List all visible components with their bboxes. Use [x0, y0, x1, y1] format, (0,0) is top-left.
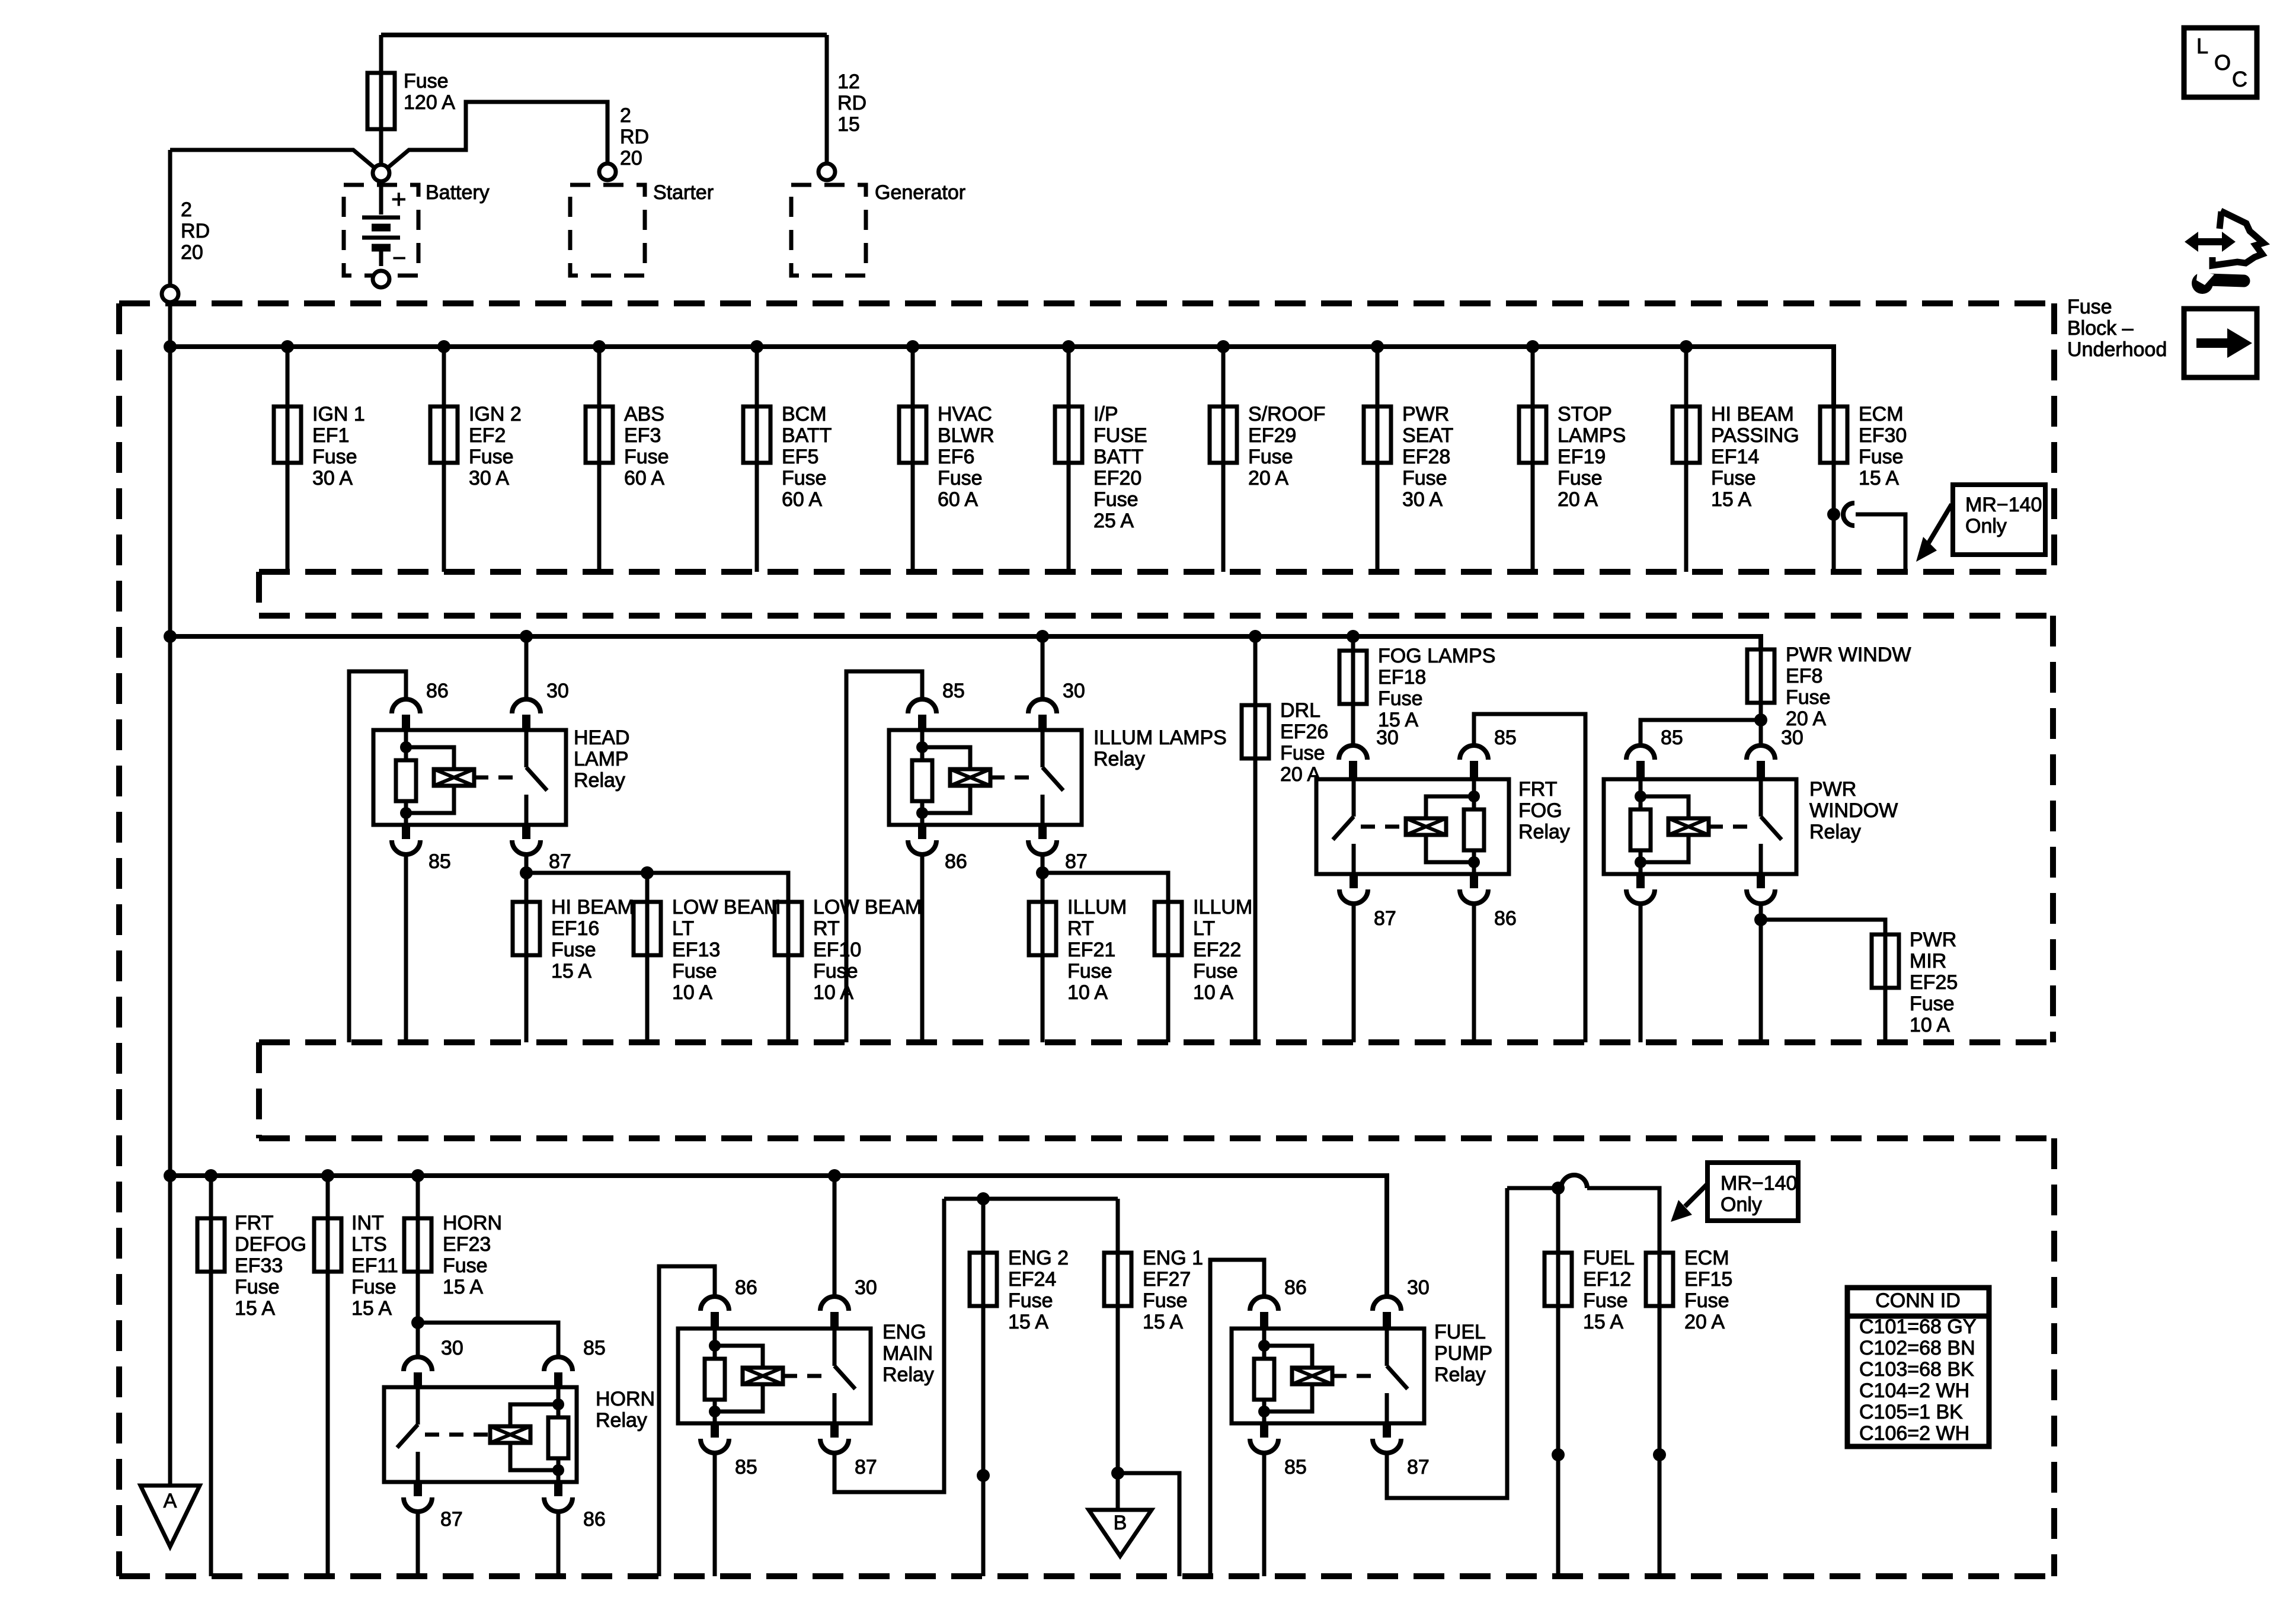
- fuse EF12 (FUEL): [1544, 1253, 1572, 1306]
- pin 85 PWR WINDOW relay: [1626, 726, 1683, 779]
- junction bus1 / EF6: [906, 340, 919, 353]
- svg-text:30: 30: [1407, 1276, 1430, 1299]
- svg-text:C101=68 GYC102=68 BNC103=68 BK: C101=68 GYC102=68 BNC103=68 BKC104=2 WHC…: [1859, 1315, 1977, 1445]
- fuse EF8 (PWR WINDW): [1747, 649, 1774, 703]
- junction EF30 output / MR-140 branch: [1827, 508, 1840, 521]
- pin 85 ILLUM relay: [908, 680, 965, 730]
- wire: EF20 feed: [1067, 347, 1071, 406]
- svg-text:FUELPUMPRelay: FUELPUMPRelay: [1434, 1321, 1492, 1386]
- svg-text:O: O: [2214, 50, 2231, 75]
- fuse block dashed bottom edge: [119, 1573, 2054, 1579]
- connector triangle B: [1089, 1510, 1152, 1556]
- svg-text:87: 87: [855, 1456, 877, 1478]
- svg-text:87: 87: [549, 850, 571, 873]
- svg-text:HORNRelay: HORNRelay: [596, 1388, 655, 1432]
- fuse block dashed right edge row3: [2051, 1138, 2057, 1576]
- junction on bus1 at left feed: [164, 340, 177, 353]
- fuse F120 (120 A): [367, 73, 395, 165]
- wire: EF5 output: [755, 463, 759, 572]
- svg-text:30: 30: [855, 1276, 877, 1299]
- pin 30 PWR WINDOW relay: [1747, 726, 1803, 779]
- wire: EF27 branch to triangle B: [1116, 1473, 1120, 1510]
- junction bus2 / HEAD 30: [520, 630, 533, 643]
- junction HEAD 87 distribution: [520, 866, 533, 879]
- svg-text:Starter: Starter: [653, 181, 714, 204]
- pin 30 ILLUM relay: [1028, 680, 1085, 730]
- wire: split to HORN 85: [418, 1323, 558, 1357]
- fuse block dashed step left row2/row3: [256, 1042, 262, 1138]
- pin 87 HORN relay: [404, 1482, 463, 1531]
- fuse EF24 (ENG 2): [970, 1253, 997, 1306]
- wire: EF1 output: [286, 463, 290, 572]
- arrow to ECM feeder: [1671, 1184, 1707, 1222]
- wire: EF14 output: [1684, 463, 1689, 572]
- fuse block dashed row2 bottom edge: [259, 1039, 2053, 1045]
- pin 87 ILLUM relay: [1028, 825, 1088, 873]
- svg-text:A: A: [164, 1490, 177, 1512]
- wire: ILLUM 86 to block edge: [920, 854, 925, 1042]
- callout box MR-140 Only (row3): [1707, 1163, 1798, 1221]
- junction on EF24 output: [977, 1469, 990, 1482]
- wire: EF25 output: [1884, 988, 1888, 1042]
- pin 87 HEAD LAMP relay: [512, 825, 571, 873]
- wire: EF26 feed: [1253, 636, 1258, 705]
- svg-text:85: 85: [428, 850, 451, 873]
- junction bus2 / FOG LAMPS: [1347, 630, 1360, 643]
- wire: EF6 feed: [911, 347, 915, 406]
- pin 86 FUEL PUMP relay: [1250, 1276, 1307, 1329]
- svg-text:85: 85: [1284, 1456, 1307, 1478]
- fuse EF23 (HORN): [404, 1218, 431, 1272]
- svg-text:B: B: [1114, 1512, 1127, 1534]
- wire: EF21 feed: [1041, 873, 1045, 902]
- wire: EF24 feed: [981, 1199, 986, 1253]
- wire: EF27 branch to block edge: [1118, 1473, 1179, 1576]
- wire: ENG fuse feeder: [944, 1197, 1118, 1201]
- relay HEAD LAMP (box and contacts): [373, 730, 566, 825]
- bus: row 3 feed: [170, 1176, 1387, 1297]
- node: starter terminal: [599, 164, 616, 180]
- junction bus1 / EF14: [1680, 340, 1693, 353]
- wire: EF11 output: [326, 1272, 330, 1576]
- pin 86 PWR WINDOW relay: [1626, 874, 1655, 904]
- fuse EF20 (I/P): [1055, 406, 1082, 463]
- wire: EF29 feed: [1221, 347, 1226, 406]
- wire: ILLUM 87 output: [1041, 854, 1045, 873]
- wire: EF1 feed: [286, 347, 290, 406]
- junction ILLUM 87 distribution: [1036, 866, 1049, 879]
- junction EF8 output split: [1754, 713, 1767, 726]
- svg-text:86: 86: [426, 680, 449, 702]
- svg-text:87: 87: [1407, 1456, 1430, 1478]
- fuse EF11 (INT): [314, 1218, 341, 1272]
- relay FRT FOG (box and contacts): [1316, 779, 1509, 874]
- svg-text:Fuse120 A: Fuse120 A: [404, 70, 455, 114]
- wire: EF27 feed: [1116, 1199, 1120, 1253]
- node: battery positive junction: [373, 165, 389, 181]
- pin 85 FUEL PUMP relay: [1250, 1423, 1307, 1478]
- wire: EF3 output: [597, 463, 602, 572]
- wire: EF8 output: [1759, 703, 1763, 744]
- pin 85 HEAD LAMP relay: [392, 825, 451, 873]
- fuse EF28 (PWR): [1364, 406, 1391, 463]
- callout box MR-140 Only (row1): [1953, 485, 2045, 555]
- bus: row 2 feed: [170, 636, 1761, 649]
- wire: EF29 output: [1221, 463, 1226, 572]
- svg-text:85: 85: [1661, 726, 1683, 749]
- wire: EF2 feed: [442, 347, 446, 406]
- wire: EF22 output: [1166, 955, 1171, 1042]
- wire: FUEL PUMP 86 feed: [1210, 1260, 1264, 1576]
- wire: EF15 output: [1658, 1306, 1662, 1576]
- junction feeder / EF12: [1552, 1182, 1565, 1195]
- fuse block dashed step left row1/row2: [256, 572, 262, 616]
- wire: left feed to grounding triangle A: [168, 1176, 172, 1486]
- fuse EF14 (HI BEAM): [1673, 406, 1700, 463]
- icon vehicle pictogram with double arrow and wrench: [2185, 211, 2263, 294]
- wire: EF33 output: [209, 1272, 213, 1576]
- svg-text:Battery: Battery: [426, 181, 490, 204]
- connector triangle A: [140, 1486, 200, 1547]
- fuse block dashed outline left edge: [116, 303, 122, 1576]
- fuse EF26 (DRL): [1242, 705, 1269, 758]
- junction bus2 / left feed: [164, 630, 177, 643]
- junction bus1 / EF3: [593, 340, 606, 353]
- node: battery negative terminal: [373, 271, 389, 287]
- svg-text:HEADLAMPRelay: HEADLAMPRelay: [574, 726, 629, 792]
- wire: EF28 feed: [1376, 347, 1380, 406]
- fuse block dashed row1 bottom edge: [259, 569, 2054, 575]
- wire: fuse 120A top lead: [379, 35, 383, 73]
- wire: EF13 output: [645, 955, 650, 1042]
- fuse block dashed right edge row2: [2050, 616, 2056, 1042]
- svg-text:30: 30: [1781, 726, 1803, 749]
- pin 85 FRT FOG relay: [1460, 726, 1517, 779]
- wire: ILLUM relay 85 feed: [846, 671, 922, 1042]
- wire: EF30 output: [1832, 463, 1836, 572]
- junction bus2 / DRL: [1249, 630, 1262, 643]
- junction on EF12 output: [1552, 1448, 1565, 1461]
- wire: EF24 output: [981, 1306, 986, 1576]
- pin 86 HEAD LAMP relay: [392, 680, 449, 730]
- junction PWR MIR tap: [1754, 913, 1767, 926]
- junction bus2 / ILLUM 30: [1036, 630, 1049, 643]
- wire: EF12 feed: [1556, 1188, 1560, 1253]
- wire: EF6 output: [911, 463, 915, 572]
- pin 87 ENG MAIN relay: [820, 1423, 877, 1478]
- svg-text:CONN ID: CONN ID: [1875, 1289, 1961, 1312]
- pin 85 HORN relay: [544, 1337, 606, 1387]
- wire: HI BEAM fuse feed: [525, 873, 529, 902]
- fuse EF21 (ILLUM RT): [1029, 902, 1056, 955]
- wire: ENG MAIN 86 feed: [659, 1266, 715, 1576]
- svg-text:87: 87: [1065, 850, 1088, 873]
- fuse EF29 (S/ROOF): [1210, 406, 1237, 463]
- fuse EF13 (LOW BEAM LT): [634, 902, 661, 955]
- wire: EF19 output: [1531, 463, 1535, 572]
- svg-text:85: 85: [1494, 726, 1517, 749]
- icon LOC box: [2184, 28, 2257, 97]
- fuse EF5 (BCM): [743, 406, 770, 463]
- wire: FRT FOG 86 to block edge: [1472, 904, 1476, 1042]
- wire: left feed through fuse block: [168, 302, 172, 1486]
- node: generator terminal: [818, 164, 835, 180]
- pin 86 ENG MAIN relay: [701, 1276, 757, 1329]
- svg-text:86: 86: [1284, 1276, 1307, 1299]
- wire: EF11 feed: [326, 1176, 330, 1218]
- fuse EF19 (STOP): [1519, 406, 1546, 463]
- wire: split to PWR WINDOW 85: [1641, 720, 1761, 744]
- wire: EF5 feed: [755, 347, 759, 406]
- svg-text:Generator: Generator: [875, 181, 965, 204]
- junction EF27 output split: [1111, 1467, 1124, 1480]
- junction bus1 / EF20: [1062, 340, 1075, 353]
- pin 87 FUEL PUMP relay: [1373, 1423, 1430, 1478]
- junction bus1 / EF19: [1526, 340, 1539, 353]
- wire: MR-140 branch with option hop: [1843, 503, 1905, 572]
- node: bulkhead connector on left feed: [162, 286, 178, 302]
- wire: EF16 output: [525, 955, 529, 1042]
- fuse block dashed outline right edge row1: [2051, 303, 2057, 572]
- pin 30 HORN relay: [404, 1337, 463, 1387]
- wire: right branch to starter: [387, 102, 607, 168]
- junction on EF15 output: [1653, 1448, 1666, 1461]
- fuse EF30 (ECM): [1820, 406, 1847, 463]
- pin 86 HORN relay: [544, 1482, 606, 1531]
- wire: ENG MAIN 87 output riser: [834, 1199, 944, 1492]
- wire: HORN 86 to block edge: [557, 1512, 561, 1576]
- wire: HEAD 87 output: [525, 854, 529, 873]
- fuse EF22 (ILLUM LT): [1155, 902, 1182, 955]
- wire: EF3 feed: [597, 347, 602, 406]
- wire: HEAD 85 to block edge: [404, 854, 408, 1042]
- pin 30 FRT FOG relay: [1339, 726, 1399, 779]
- starter (dashed box): [570, 185, 645, 276]
- relay PWR WINDOW (box and contacts): [1604, 779, 1796, 874]
- junction bus3 / left feed: [164, 1169, 177, 1182]
- junction bus3 / EF33: [204, 1169, 218, 1182]
- svg-text:30: 30: [441, 1337, 463, 1359]
- wire: EF23 feed: [416, 1176, 420, 1218]
- wire: HEAD LAMP relay 86 feed: [349, 671, 406, 1042]
- svg-text:87: 87: [1374, 907, 1396, 930]
- wire: EF28 output: [1376, 463, 1380, 572]
- wire: HORN 87 to block edge: [416, 1512, 420, 1576]
- wire: top feed from Fuse 120A to Generator: [381, 33, 827, 37]
- wire: tap to PWR MIR fuse: [1761, 920, 1885, 934]
- relay HORN (box and contacts): [384, 1387, 577, 1482]
- wire: EF20 output: [1067, 463, 1071, 572]
- wire: EF18 output to relay 30: [1351, 704, 1355, 744]
- svg-text:85: 85: [583, 1337, 606, 1359]
- junction bus3 / ENG MAIN 30: [828, 1169, 841, 1182]
- fuse EF6 (HVAC): [899, 406, 926, 463]
- generator (dashed box): [791, 185, 866, 276]
- pin 86 ILLUM relay: [908, 825, 967, 873]
- svg-text:86: 86: [945, 850, 967, 873]
- wire: EF12 output: [1556, 1306, 1560, 1576]
- wire: EF18 feed: [1351, 636, 1355, 651]
- svg-text:87: 87: [440, 1508, 463, 1531]
- wire: FUEL PUMP 87 output riser: [1387, 1188, 1507, 1498]
- wire: HORN 30 drop: [416, 1323, 420, 1357]
- wire: FRT FOG 87 to block edge: [1352, 904, 1356, 1042]
- svg-text:+: +: [391, 185, 407, 214]
- svg-text:30: 30: [1376, 726, 1399, 749]
- wire: ILLUM relay 30 feed: [1041, 636, 1045, 699]
- pin 87 FRT FOG relay: [1339, 874, 1396, 930]
- fuse EF27 (ENG 1): [1104, 1253, 1131, 1306]
- relay ILLUM LAMPS (box and contacts): [889, 730, 1082, 825]
- relay FUEL PUMP (box and contacts): [1232, 1329, 1424, 1423]
- wire: left branch to fuse block feed: [170, 150, 375, 168]
- fuse EF33 (FRT): [197, 1218, 225, 1272]
- wire: ENG MAIN 30 feed: [833, 1176, 837, 1297]
- wire: EF19 feed: [1531, 347, 1535, 406]
- pin 30 FUEL PUMP relay: [1373, 1276, 1430, 1329]
- bus: row 1 feed: [170, 347, 1834, 406]
- junction bus1 / EF1: [281, 340, 294, 353]
- wire: left feed vertical (2 RD 20): [168, 150, 172, 286]
- wire: EF13 feed: [645, 873, 650, 902]
- wire: EF30 feed: [1832, 347, 1836, 406]
- fuse EF25 (PWR MIR): [1872, 934, 1899, 988]
- junction bus1 / EF2: [437, 340, 450, 353]
- fuse EF2 (IGN 2): [430, 406, 458, 463]
- svg-text:30: 30: [546, 680, 569, 702]
- fuse EF1 (IGN 1): [274, 406, 301, 463]
- junction feeder / EF24: [977, 1192, 990, 1205]
- fuse EF15 (ECM row3): [1646, 1253, 1673, 1306]
- svg-text:L: L: [2196, 34, 2208, 58]
- svg-text:86: 86: [735, 1276, 757, 1299]
- table CONN ID: [1847, 1288, 1989, 1446]
- junction bus3 / EF23: [411, 1169, 424, 1182]
- junction bus1 / EF29: [1217, 340, 1230, 353]
- pin 86 FRT FOG relay: [1460, 874, 1517, 930]
- pin 87 PWR WINDOW relay: [1747, 874, 1775, 904]
- wire: FUEL/ECM fuse feeder with option hop: [1507, 1175, 1659, 1253]
- junction low beam LT tap: [641, 866, 654, 879]
- fuse block dashed row2 top edge: [259, 613, 2053, 619]
- fuse EF3 (ABS): [586, 406, 613, 463]
- wire: EF2 output: [442, 463, 446, 572]
- junction HORN coil/contact split: [411, 1316, 424, 1329]
- pin 30 ENG MAIN relay: [820, 1276, 877, 1329]
- wire: HEAD LAMP relay 30 feed: [525, 636, 529, 699]
- svg-text:C: C: [2232, 67, 2247, 91]
- junction bus1 / EF5: [750, 340, 763, 353]
- wire: EF21 output: [1041, 955, 1045, 1042]
- wire: EF33 feed: [209, 1176, 213, 1218]
- wire: 87 distribution to illum fuses: [1043, 873, 1168, 902]
- fuse EF16 (HI BEAM): [513, 902, 540, 955]
- fuse block dashed row3 top edge: [259, 1135, 2054, 1141]
- svg-text:85: 85: [942, 680, 965, 702]
- junction bus3 / EF11: [321, 1169, 334, 1182]
- wire: PWR WINDOW 86 to block edge: [1639, 904, 1643, 1042]
- wire: 87 distribution to low beam fuses: [526, 873, 788, 902]
- wire: EF23 output: [416, 1272, 420, 1323]
- fuse EF18 (FOG LAMPS): [1339, 651, 1367, 704]
- icon destination arrow box: [2184, 309, 2257, 377]
- junction bus1 / EF28: [1371, 340, 1384, 353]
- svg-text:30: 30: [1063, 680, 1085, 702]
- wire: FUEL PUMP 85 to block edge: [1262, 1453, 1267, 1576]
- svg-text:86: 86: [583, 1508, 606, 1531]
- relay ENG MAIN (box and contacts): [678, 1329, 871, 1423]
- svg-text:−: −: [392, 245, 406, 271]
- pin 85 ENG MAIN relay: [701, 1423, 757, 1478]
- wire: EF10 output: [786, 955, 791, 1042]
- arrow to MR-140 branch: [1916, 504, 1952, 562]
- pin 30 HEAD LAMP relay: [512, 680, 569, 730]
- battery (dashed box with cell symbol): [344, 181, 418, 276]
- fuse EF10 (LOW BEAM RT): [775, 902, 802, 955]
- wire: EF14 feed: [1684, 347, 1689, 406]
- svg-text:ABSEF3Fuse60 A: ABSEF3Fuse60 A: [624, 403, 669, 489]
- wire: PWR WINDOW 87 output: [1759, 904, 1763, 1042]
- wire: ENG MAIN 85 to block edge: [713, 1453, 717, 1576]
- wire: generator lead (12 RD 15): [825, 35, 829, 164]
- svg-text:86: 86: [1494, 907, 1517, 930]
- fuse block underhood: dashed outline top edge: [119, 300, 2054, 306]
- svg-text:85: 85: [735, 1456, 757, 1478]
- wire: FRT FOG 85 feed: [1474, 714, 1585, 1042]
- wire: EF27 output: [1116, 1306, 1120, 1473]
- wire: EF26 output: [1253, 758, 1258, 1042]
